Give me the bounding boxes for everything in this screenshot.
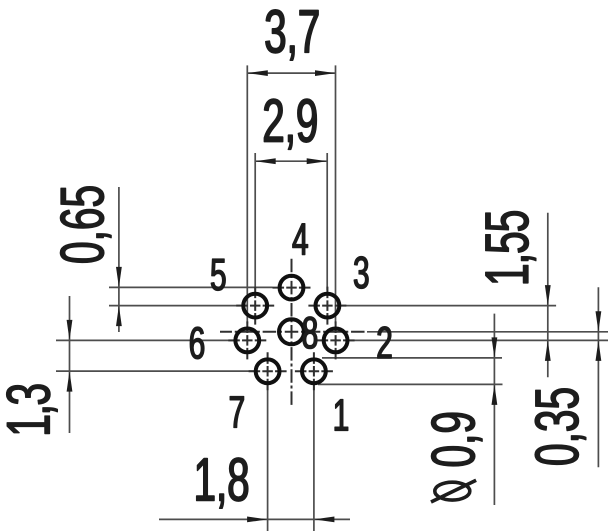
- pin contact 2: [324, 329, 348, 353]
- reference line pin 2 row (right): [349, 339, 608, 341]
- dimension line 0,65: [116, 187, 122, 332]
- pin 3 crosshair: [308, 287, 346, 325]
- extension line left of 3,7 (pin 6 axis): [246, 65, 248, 323]
- pin 1 crosshair: [295, 352, 333, 390]
- extension line right of 2,9 (pin 3 axis): [326, 153, 328, 290]
- pin 5 crosshair: [236, 287, 274, 325]
- dimension Ø 0,9 value label digits: [431, 413, 482, 466]
- pin number 1: [335, 400, 348, 431]
- dimension 0,35 value label: [535, 389, 586, 465]
- extension line left of 2,9 (pin 5 axis): [254, 153, 256, 290]
- pin number 2: [378, 327, 392, 358]
- extension line below pin 1: [313, 384, 315, 531]
- diameter symbol of Ø 0,9: [431, 480, 476, 502]
- dimension line 1,55: [545, 213, 551, 377]
- extension line below pin 7: [267, 384, 269, 531]
- pin contact 8 (center): [279, 319, 304, 344]
- pin number 8: [303, 317, 317, 349]
- horizontal centerline through pin 8 (solid extension to 0,35): [367, 331, 608, 333]
- reference line pin 3 row (right): [341, 305, 556, 307]
- dimension line Ø 0,9: [492, 314, 498, 505]
- dimension line 1,8: [159, 517, 350, 523]
- dimension 1,3 value label: [7, 385, 58, 434]
- pin number 3: [354, 257, 368, 289]
- dimension line 1,3: [67, 296, 73, 433]
- dimension 1,8 value label: [197, 458, 248, 508]
- reference line pin 5 row (left): [109, 305, 242, 307]
- dimension line 0,35: [596, 287, 602, 467]
- pin 2 crosshair: [317, 321, 355, 359]
- pin contact 7: [256, 359, 280, 383]
- pin contact 1: [302, 359, 326, 383]
- vertical centerline through pins 4 and 8: [291, 258, 293, 406]
- reference line pin 1 bottom tangent: [318, 383, 503, 385]
- pin number 5: [211, 259, 225, 290]
- reference line pin 4 row (left): [109, 286, 273, 288]
- reference line pin 6 row (left): [56, 339, 234, 341]
- pin contact 6: [235, 329, 259, 353]
- dimension line 2,9: [255, 158, 327, 164]
- dimension 3,7 value label: [266, 10, 318, 60]
- dimension 2,9 value label: [264, 99, 316, 149]
- pin 7 crosshair: [249, 352, 287, 390]
- pin number 7: [230, 397, 244, 428]
- dimension line 3,7: [247, 70, 335, 76]
- horizontal centerline through pin 8 (dash-dot part): [220, 331, 367, 333]
- reference line pin 7 row (left): [56, 370, 254, 372]
- pin contact 3: [316, 294, 340, 318]
- pin number 4: [293, 224, 308, 255]
- dimension 0,65 value label: [60, 187, 111, 263]
- reference line pin 1 top tangent: [322, 357, 502, 359]
- extension line right of 3,7 (pin 2 axis): [335, 65, 337, 323]
- pin number 6: [190, 327, 204, 359]
- pin contact 4: [280, 276, 304, 300]
- dimension 1,55 value label: [486, 211, 536, 283]
- pin 4 crosshair: [273, 287, 311, 289]
- pin contact 5: [243, 294, 267, 318]
- pin 6 crosshair: [228, 321, 266, 359]
